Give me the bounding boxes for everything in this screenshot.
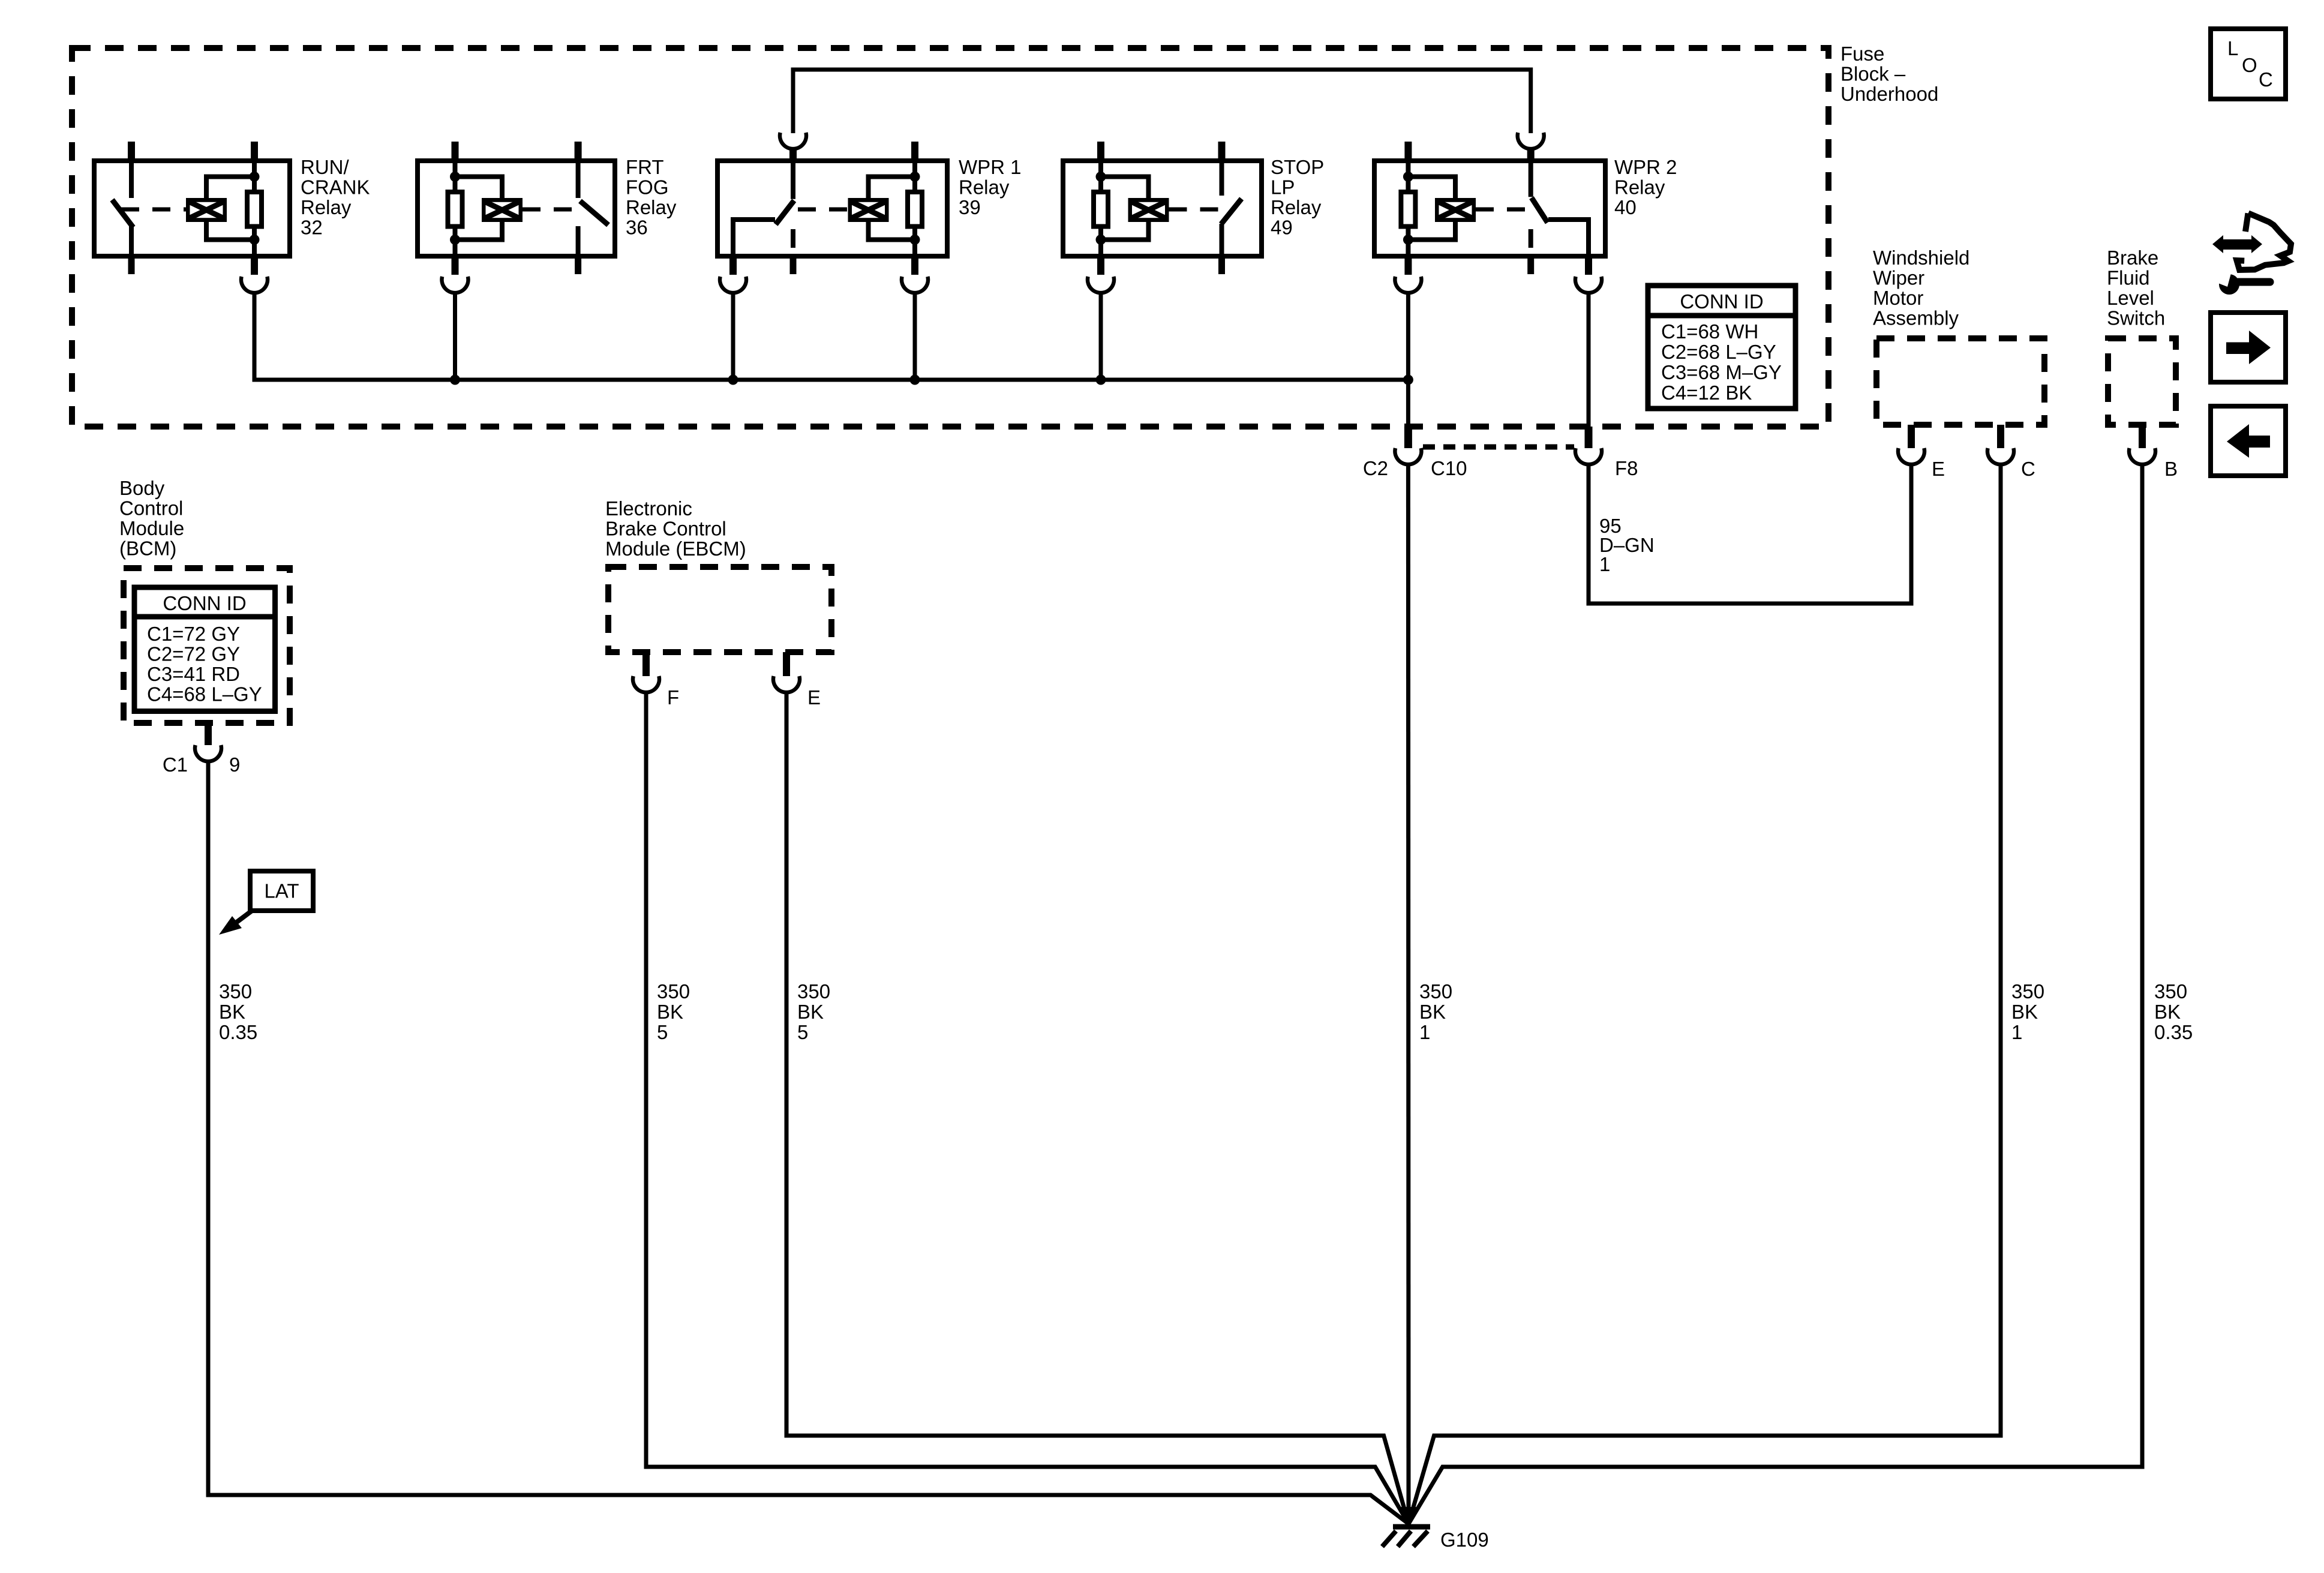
svg-text:350: 350 [2011, 980, 2044, 1002]
BCM pin stub [205, 723, 212, 745]
svg-text:1: 1 [1419, 1021, 1430, 1043]
relay 32 control dashed line [121, 208, 186, 212]
connector F8 cup [1575, 448, 1602, 464]
relay STOP LP 49 box [1063, 161, 1262, 256]
relay 32 switch bottom line [129, 225, 134, 256]
windshield wiper motor pin E stub [1908, 425, 1915, 448]
relay 49 switch fixed contact line [1220, 161, 1224, 196]
svg-text:C2=68 L–GY: C2=68 L–GY [1661, 341, 1776, 363]
relay 39 coil pin bottom stub [911, 254, 918, 275]
svg-text:C1=68 WH: C1=68 WH [1661, 320, 1758, 343]
svg-text:Electronic: Electronic [605, 497, 692, 520]
svg-text:G109: G109 [1440, 1529, 1489, 1551]
ground G109 hatch 1 [1382, 1531, 1396, 1547]
relay 36 control dashed line [523, 208, 577, 212]
svg-text:E: E [807, 686, 821, 709]
svg-text:Relay: Relay [301, 196, 352, 218]
wire brake fluid switch B to G109 (350 BK 0.35) [1409, 466, 2142, 1524]
svg-text:LP: LP [1271, 176, 1295, 199]
relay 39 NO contact connector [720, 277, 746, 293]
wire EBCM E to G109 (350 BK 5) [786, 694, 1409, 1524]
relay 40 coil pin bottom stub [1404, 254, 1412, 275]
svg-text:C4=12 BK: C4=12 BK [1661, 382, 1752, 404]
svg-text:Relay: Relay [959, 176, 1010, 199]
fuse block CONN ID table box [1648, 286, 1795, 409]
relay 32 switch fixed contact line [129, 161, 134, 198]
svg-text:350: 350 [797, 980, 830, 1002]
svg-text:BK: BK [657, 1001, 683, 1023]
relay 32 switch blade [112, 200, 133, 227]
BCM CONN ID separator [134, 614, 275, 620]
svg-text:C: C [2021, 458, 2035, 480]
wire top feed from WPR 1 relay pin to WPR 2 relay switch pin [793, 70, 1531, 133]
svg-text:Windshield: Windshield [1873, 247, 1969, 269]
wire 95 D-GN from F8 to wiper motor pin E [1589, 466, 1911, 604]
windshield wiper motor pin C cup [1987, 448, 2014, 464]
svg-text:(BCM): (BCM) [119, 538, 176, 560]
relay 36 switch fixed contact line [576, 161, 581, 198]
icon LOC box [2211, 29, 2286, 99]
relay 40 NO contact connector [1575, 277, 1602, 293]
svg-text:Underhood: Underhood [1840, 83, 1938, 105]
svg-text:Body: Body [119, 477, 165, 499]
svg-text:Brake Control: Brake Control [605, 518, 726, 540]
windshield wiper motor pin E cup [1898, 448, 1924, 464]
relay 39 control dashed line [798, 208, 848, 212]
relay 49 switch blade [1221, 199, 1242, 224]
svg-text:BK: BK [1419, 1001, 1446, 1023]
svg-text:350: 350 [219, 980, 252, 1002]
svg-text:Relay: Relay [1271, 196, 1322, 218]
svg-text:BK: BK [2154, 1001, 2181, 1023]
ground G109 hatch 2 [1398, 1531, 1411, 1547]
relay 32 switch bottom stub (unused) [128, 254, 135, 274]
relay 49 switch bottom line [1220, 224, 1224, 256]
relay 49 coil and resistor [1098, 161, 1103, 256]
EBCM pin E cup [773, 676, 800, 692]
wire WPR 2 NO contact down to F8 connector [1587, 294, 1591, 427]
brake fluid level switch pin B cup [2129, 448, 2155, 464]
relay 40 switch NO contact wire [1548, 220, 1589, 256]
relay 39 coil pin top stub [911, 142, 918, 163]
relay 39 coil connector [902, 277, 928, 293]
svg-text:STOP: STOP [1271, 156, 1324, 178]
svg-text:0.35: 0.35 [219, 1021, 257, 1043]
wire relay 39 NO contact to ground bus [731, 294, 735, 380]
svg-text:B: B [2164, 458, 2178, 480]
relay 39 switch top connector [780, 133, 806, 149]
relay 40 coil pin top stub [1404, 142, 1412, 163]
svg-text:C4=68 L–GY: C4=68 L–GY [147, 683, 262, 706]
svg-text:40: 40 [1614, 196, 1637, 218]
wire WPR 2 coil pin down to C10 connector [1406, 294, 1410, 427]
svg-text:LAT: LAT [264, 880, 299, 902]
svg-text:350: 350 [1419, 980, 1452, 1002]
relay 39 switch pin stub below connector [789, 150, 797, 163]
relay WPR 1 39 box [717, 161, 947, 256]
LAT callout box [250, 871, 313, 911]
relay 40 switch pin stub below connector [1527, 150, 1535, 163]
svg-text:Block –: Block – [1840, 63, 1906, 85]
relay 49 coil pin top stub [1097, 142, 1104, 163]
relay 40 switch fixed contact line [1529, 229, 1533, 248]
svg-text:Switch: Switch [2107, 307, 2165, 329]
relay 32 coil and resistor [252, 161, 257, 256]
svg-text:C3=68 M–GY: C3=68 M–GY [1661, 361, 1782, 383]
relay 40 control dashed line [1476, 208, 1529, 212]
relay 36 output connector [442, 277, 469, 293]
relay 39 switch fixed contact line [791, 229, 795, 248]
relay 49 switch bottom stub (unused) [1218, 254, 1225, 274]
svg-text:Module (EBCM): Module (EBCM) [605, 538, 746, 560]
icon wrench [2219, 274, 2239, 295]
svg-text:E: E [1932, 458, 1945, 480]
svg-text:Fluid: Fluid [2107, 267, 2150, 289]
relay 39 switch fixed contact bottom stub (unused) [790, 254, 797, 274]
relay 40 switch fixed contact bottom stub (unused) [1527, 254, 1534, 274]
svg-text:C2: C2 [1363, 457, 1388, 479]
svg-text:WPR 2: WPR 2 [1614, 156, 1677, 178]
relay 36 coil and resistor [453, 161, 458, 256]
relay 32 coil pin top stub [251, 142, 258, 163]
junction relay 39 coil wire / bus [910, 375, 920, 385]
BCM CONN ID table box [134, 587, 275, 712]
relay 40 NO contact bottom stub [1585, 254, 1592, 275]
relay WPR 2 40 box [1374, 161, 1605, 256]
icon component outline left bar [2245, 214, 2248, 232]
svg-text:Motor: Motor [1873, 287, 1923, 309]
relay 36 switch bottom stub (unused) [575, 254, 581, 274]
relay 39 switch common line [791, 161, 795, 199]
fuse block CONN ID separator [1648, 313, 1795, 319]
body control module dashed box [124, 568, 290, 723]
icon forward arrow [2226, 331, 2271, 364]
wire relay 39 coil to ground bus [913, 294, 917, 380]
svg-text:350: 350 [2154, 980, 2187, 1002]
icon back arrow [2227, 424, 2270, 458]
relay 39 switch NO contact wire [733, 220, 775, 256]
svg-text:1: 1 [1599, 553, 1610, 575]
svg-text:0.35: 0.35 [2154, 1021, 2193, 1043]
svg-text:1: 1 [2011, 1021, 2022, 1043]
relay 40 switch blade [1532, 198, 1548, 223]
junction relay 36 wire / bus [450, 375, 460, 385]
svg-text:9: 9 [229, 754, 240, 776]
relay 39 switch blade [776, 200, 794, 224]
svg-text:5: 5 [657, 1021, 668, 1043]
wire relay 36 to ground bus [453, 294, 457, 380]
svg-text:5: 5 [797, 1021, 808, 1043]
svg-text:C1: C1 [163, 754, 188, 776]
relay 40 switch top connector [1518, 133, 1544, 149]
svg-text:Relay: Relay [1614, 176, 1665, 199]
relay 32 coil pin bottom stub [251, 254, 258, 275]
svg-text:Wiper: Wiper [1873, 267, 1924, 289]
svg-text:350: 350 [657, 980, 690, 1002]
svg-text:F: F [667, 686, 679, 709]
svg-text:CRANK: CRANK [301, 176, 370, 199]
svg-text:39: 39 [959, 196, 981, 218]
svg-text:Relay: Relay [626, 196, 677, 218]
wire EBCM F to G109 (350 BK 5) [646, 694, 1409, 1524]
relay 49 coil pin bottom stub [1097, 254, 1104, 275]
relay 40 coil and resistor [1406, 161, 1410, 256]
relay FRT FOG 36 box [418, 161, 615, 256]
wire BCM pin 9 to G109 (350 BK 0.35) [208, 763, 1409, 1524]
icon forward arrow box [2211, 313, 2286, 382]
icon back arrow box [2211, 406, 2286, 476]
windshield wiper motor pin C stub [1997, 425, 2004, 448]
svg-text:Level: Level [2107, 287, 2154, 309]
svg-text:C10: C10 [1431, 457, 1467, 479]
relay 40 coil connector [1395, 277, 1421, 293]
relay 36 switch pin top stub [575, 142, 582, 163]
relay 36 switch blade [580, 201, 608, 225]
BCM pin cup [195, 745, 221, 761]
ground G109 hatch 3 [1413, 1531, 1428, 1547]
electronic brake control module dashed box [608, 567, 831, 652]
relay 49 switch pin top stub [1218, 142, 1226, 163]
LAT callout arrow [235, 911, 252, 923]
svg-text:CONN ID: CONN ID [1680, 290, 1763, 313]
svg-text:Control: Control [119, 497, 183, 520]
wire relay 32 to ground bus [254, 294, 1408, 380]
relay 39 coil and resistor [912, 161, 917, 256]
svg-text:FOG: FOG [626, 176, 669, 199]
relay 36 coil pin top stub [452, 142, 459, 163]
relay 36 coil pin bottom stub [452, 254, 459, 275]
junction ground bus / WPR 2 coil wire [1403, 375, 1413, 385]
relay 36 switch bottom line [576, 226, 581, 256]
icon component outline [2237, 213, 2292, 270]
wire wiper motor C to G109 (350 BK 1) [1409, 466, 2001, 1524]
relay 39 NO contact bottom stub [729, 254, 737, 275]
wire C10 to G109 (350 BK 1) [1406, 466, 1411, 1524]
ground G109 wedge [1400, 1507, 1417, 1526]
svg-text:Fuse: Fuse [1840, 43, 1884, 65]
ground G109 bar [1393, 1524, 1430, 1530]
relay 49 control dashed line [1169, 208, 1220, 212]
relay 32 switch pin top stub [128, 142, 135, 163]
wire relay 49 coil to ground bus [1099, 294, 1103, 380]
relay 49 coil connector [1088, 277, 1114, 293]
svg-text:FRT: FRT [626, 156, 664, 178]
EBCM pin F cup [633, 676, 659, 692]
svg-text:CONN ID: CONN ID [163, 592, 246, 614]
connector C2/C10 stub at fuse block boundary [1404, 427, 1412, 448]
svg-text:C2=72 GY: C2=72 GY [147, 643, 240, 665]
svg-text:C1=72 GY: C1=72 GY [147, 623, 240, 645]
svg-text:36: 36 [626, 217, 648, 239]
svg-text:BK: BK [219, 1001, 245, 1023]
relay RUN/CRANK 32 box [94, 161, 290, 256]
brake fluid level switch dashed box [2108, 338, 2176, 425]
svg-text:F8: F8 [1615, 457, 1638, 479]
svg-text:WPR 1: WPR 1 [959, 156, 1022, 178]
EBCM pin F stub [642, 652, 650, 676]
relay 40 switch common line [1529, 161, 1533, 197]
dashed connector strip between C10 and F8 [1423, 445, 1574, 450]
relay 32 output connector [241, 277, 268, 293]
svg-text:Brake: Brake [2107, 247, 2158, 269]
connector F8 stub at fuse block boundary [1585, 427, 1593, 448]
svg-text:Assembly: Assembly [1873, 307, 1959, 329]
svg-text:49: 49 [1271, 217, 1293, 239]
svg-text:L: L [2227, 37, 2238, 59]
junction relay 49 wire / bus [1096, 375, 1106, 385]
windshield wiper motor assembly dashed box [1876, 338, 2044, 425]
svg-text:BK: BK [2011, 1001, 2038, 1023]
svg-text:RUN/: RUN/ [301, 156, 349, 178]
svg-text:C: C [2259, 68, 2273, 91]
svg-text:32: 32 [301, 217, 323, 239]
brake fluid level switch pin B stub [2139, 425, 2146, 448]
svg-text:Module: Module [119, 517, 184, 539]
EBCM pin E stub [783, 652, 790, 676]
connector C2/C10 cup [1395, 448, 1421, 464]
fuse block underhood dashed boundary [72, 48, 1828, 427]
svg-text:BK: BK [797, 1001, 824, 1023]
svg-text:C3=41 RD: C3=41 RD [147, 663, 240, 685]
svg-text:O: O [2242, 54, 2257, 76]
junction relay 39 NO wire / bus [728, 375, 738, 385]
icon lateral double arrow [2212, 235, 2262, 253]
